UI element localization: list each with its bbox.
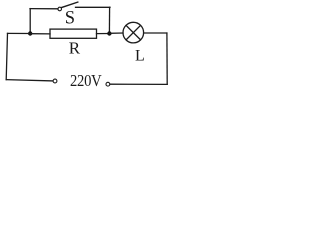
svg-text:L: L xyxy=(135,48,145,65)
lamp L cross stroke 2 xyxy=(126,25,140,39)
resistor R body xyxy=(50,29,97,38)
wire left vertical from top rail down to node A xyxy=(29,9,31,34)
wire top rail right (switch contact to corner) xyxy=(76,6,111,8)
wire lamp to right corner xyxy=(144,32,167,34)
wire bottom rail left (left corner to left terminal) xyxy=(6,80,53,81)
node A junction dot xyxy=(28,31,32,35)
svg-text:R: R xyxy=(69,39,81,58)
wire bottom rail right (corner to right terminal) xyxy=(110,83,167,85)
wire left side vertical xyxy=(6,33,7,79)
wire node A to left corner xyxy=(8,32,31,34)
svg-text:220V: 220V xyxy=(70,72,102,90)
right supply terminal circle xyxy=(106,82,110,86)
wire node B to lamp xyxy=(109,32,123,34)
svg-text:S: S xyxy=(65,9,75,29)
wire resistor to node B xyxy=(97,33,110,35)
switch S pivot circle xyxy=(58,7,62,11)
left supply terminal circle xyxy=(53,79,57,83)
wire right side vertical down xyxy=(166,33,168,84)
wire right vertical from top rail down to node B xyxy=(108,7,110,33)
wire node A to resistor xyxy=(30,33,50,35)
lamp L circle xyxy=(123,22,144,43)
switch S lever arm xyxy=(61,2,77,8)
lamp L cross stroke 1 xyxy=(126,25,140,39)
node B junction dot xyxy=(107,31,111,35)
wire top rail left (corner to switch) xyxy=(30,8,58,10)
